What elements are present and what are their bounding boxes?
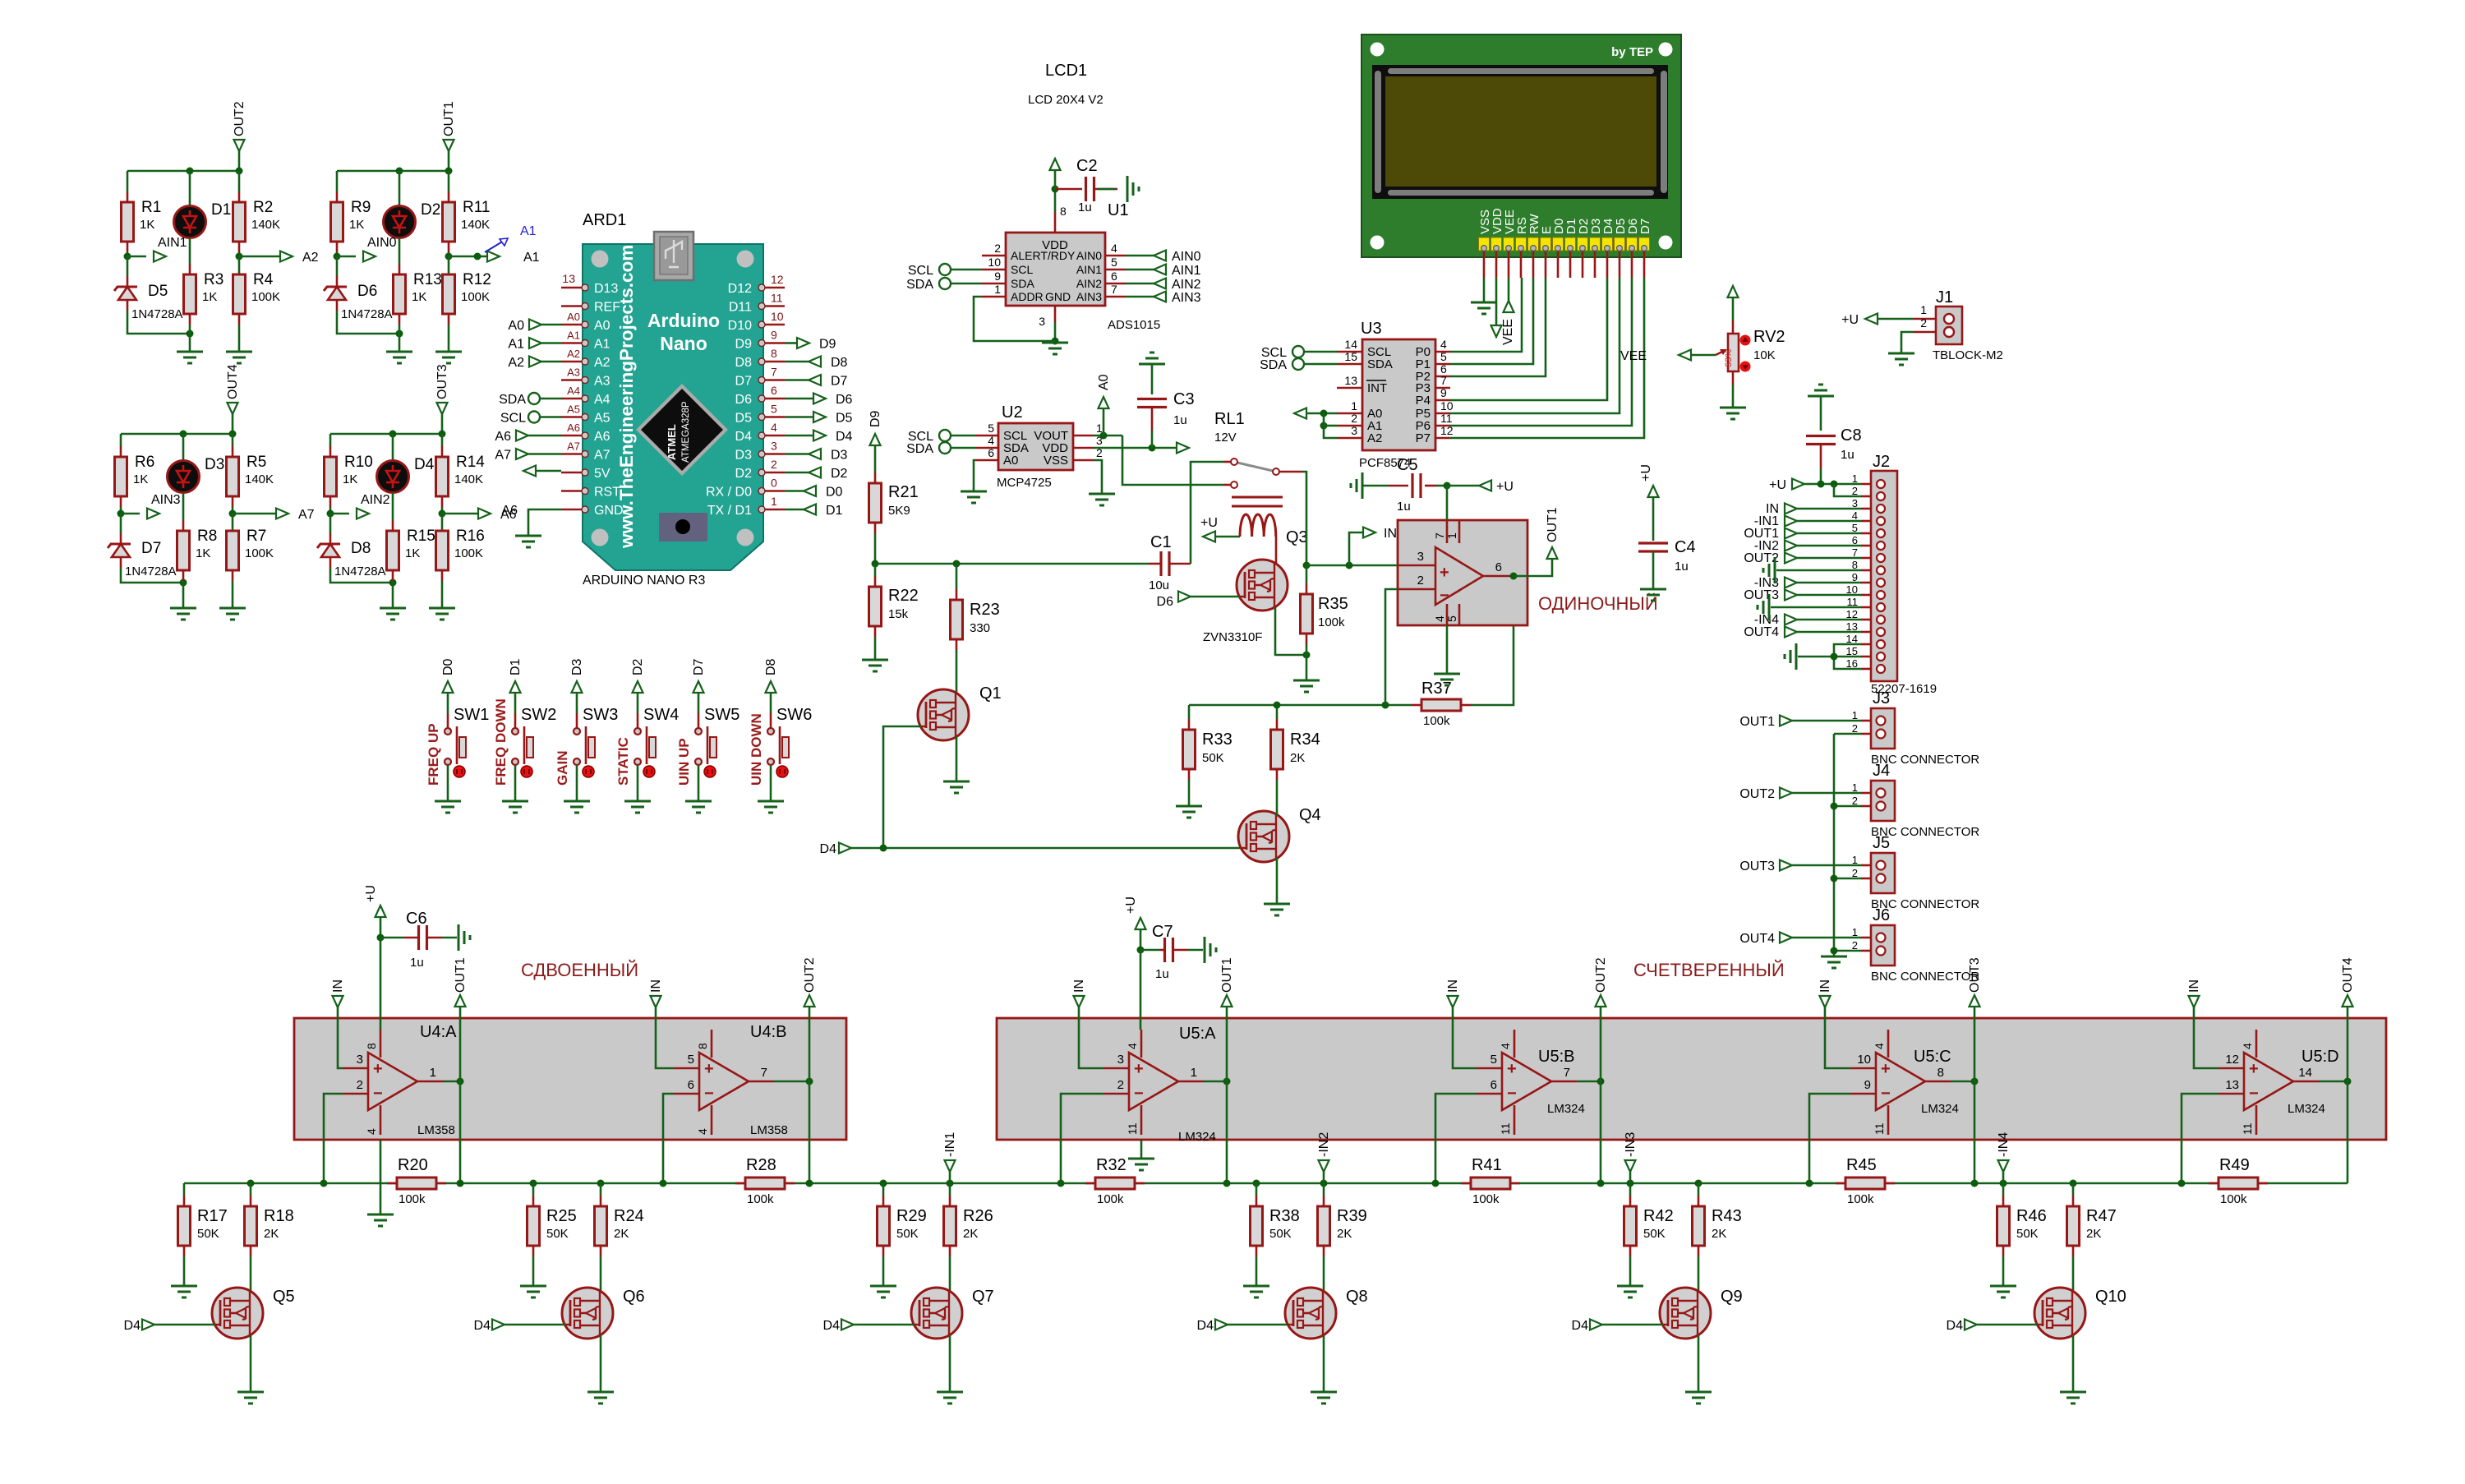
wire [1126, 255, 1154, 257]
lcd pad RW [1528, 237, 1539, 251]
resistor R22 body [869, 587, 882, 626]
svg-text:D0: D0 [441, 658, 455, 675]
arduino right pin D8 [763, 361, 785, 363]
ground (U2 VSS) [1089, 494, 1115, 505]
svg-text:OUT4: OUT4 [1744, 625, 1779, 639]
switch SW1 red button [454, 766, 465, 777]
svg-text:D13: D13 [594, 282, 618, 296]
svg-text:MCP4725: MCP4725 [997, 476, 1052, 490]
svg-text:FREQ DOWN: FREQ DOWN [493, 698, 509, 786]
J2 pin 2 [1861, 495, 1871, 498]
atmega328p chip [636, 384, 728, 476]
svg-text:C2: C2 [1076, 157, 1098, 175]
wire [809, 1081, 811, 1183]
wire [448, 171, 450, 191]
lcd pad VSS [1479, 237, 1490, 251]
resistor R23 body [951, 600, 963, 639]
svg-text:J1: J1 [1936, 288, 1953, 306]
junction J6 shield [1831, 947, 1838, 955]
U5:C pin 4 (top) [1887, 1030, 1890, 1058]
svg-text:R45: R45 [1846, 1156, 1877, 1174]
U1 pin 6 AIN2 [1105, 283, 1126, 285]
svg-text:A5: A5 [567, 403, 580, 416]
wire [1820, 468, 1822, 484]
svg-text:D5: D5 [148, 283, 168, 300]
node A7 [229, 510, 237, 518]
wire R23 to Q1 [956, 650, 958, 694]
resistor R13 [394, 274, 406, 314]
wire [1514, 559, 1552, 576]
svg-text:7: 7 [761, 1066, 767, 1080]
svg-text:D4: D4 [1197, 1319, 1214, 1333]
terminal AIN2 [1154, 279, 1166, 289]
J2 pin 10 [1861, 594, 1871, 597]
svg-text:2K: 2K [1290, 751, 1305, 765]
wire [250, 1335, 252, 1392]
svg-text:A4: A4 [567, 385, 580, 397]
svg-text:D1: D1 [826, 504, 843, 518]
junction pin2 [1831, 481, 1838, 488]
svg-text:14: 14 [1344, 338, 1357, 351]
wire GND [528, 509, 561, 536]
svg-text:+: + [1134, 1060, 1144, 1078]
ground [515, 536, 541, 547]
wire [1189, 704, 1412, 707]
svg-text:ОДИНОЧНЫЙ: ОДИНОЧНЫЙ [1538, 593, 1658, 614]
wire [770, 765, 772, 801]
svg-text:AIN3: AIN3 [1076, 290, 1102, 303]
wire [540, 416, 561, 418]
resistor R45 [1836, 1182, 1845, 1185]
wire VOUT [1093, 435, 1122, 437]
svg-text:140K: 140K [461, 218, 490, 232]
wire [1652, 551, 1655, 589]
wire [785, 398, 813, 400]
arduino left pin A2 [561, 361, 583, 363]
junction output U5:A [1223, 1078, 1231, 1085]
ground [170, 608, 196, 620]
svg-text:D4: D4 [820, 842, 837, 856]
lcd pad D2 [1578, 237, 1588, 251]
wire [1629, 1172, 1632, 1183]
J2 pin 6 [1861, 545, 1871, 547]
mosfet Q6 [562, 1288, 613, 1339]
svg-text:3: 3 [1351, 424, 1357, 437]
svg-text:100k: 100k [1318, 615, 1345, 629]
wire [785, 435, 813, 437]
wire [1054, 322, 1057, 341]
svg-text:15k: 15k [888, 607, 909, 621]
ground (C6) [458, 924, 470, 951]
svg-text:5: 5 [1445, 615, 1458, 622]
svg-text:OUT2: OUT2 [1594, 957, 1608, 993]
resistor R25 body [528, 1206, 540, 1246]
wire [514, 693, 517, 713]
svg-text:D8: D8 [351, 540, 371, 557]
wire [1306, 565, 1398, 567]
svg-text:140K: 140K [245, 472, 274, 486]
wire [576, 693, 578, 713]
wire [1483, 278, 1486, 302]
wire bottom [330, 568, 393, 583]
svg-text:AIN2: AIN2 [361, 493, 390, 507]
svg-text:D4: D4 [735, 430, 753, 444]
resistor R6 [115, 457, 127, 496]
svg-text:4: 4 [365, 1128, 378, 1135]
U3 pin 12 P7 [1435, 437, 1450, 440]
resistor R1 [122, 202, 134, 242]
ground (U1) [1042, 343, 1068, 354]
svg-text:8: 8 [696, 1043, 709, 1049]
mosfet Q9 [1660, 1288, 1711, 1339]
resistor R32 [1085, 1182, 1095, 1185]
junction [1695, 1180, 1702, 1187]
svg-text:GND: GND [1045, 290, 1071, 303]
svg-text:D6: D6 [735, 393, 753, 407]
svg-text:−: − [704, 1085, 714, 1103]
wire [2319, 1081, 2348, 1083]
wire OUT2 to bus [238, 151, 241, 171]
wire [949, 1172, 951, 1183]
wire [1304, 363, 1337, 366]
junction A0 [1320, 410, 1328, 417]
wire [1691, 354, 1716, 357]
svg-text:R12: R12 [463, 271, 491, 288]
svg-text:100k: 100k [747, 1192, 774, 1206]
svg-text:R33: R33 [1202, 730, 1232, 749]
wire [874, 637, 877, 660]
ground (C2) [1127, 176, 1139, 202]
wire [2182, 1094, 2218, 1183]
ground (op-amp pin4) [1434, 674, 1460, 685]
svg-text:2: 2 [1117, 1078, 1124, 1092]
svg-text:U5:D: U5:D [2301, 1048, 2339, 1066]
terminal VEE (down) [1491, 325, 1502, 337]
arduino right pin D4 [763, 435, 785, 437]
capacitor C8 plates [1806, 436, 1836, 445]
capacitor C1 [1149, 563, 1161, 565]
junction -input [1806, 1180, 1813, 1187]
wire [1054, 189, 1057, 212]
wire VSS [1093, 460, 1102, 493]
svg-text:10: 10 [988, 256, 1001, 269]
svg-text:D6: D6 [836, 393, 853, 407]
junction node bus [1223, 1180, 1231, 1187]
terminal SCL (U2) [939, 430, 951, 441]
U5:C pin 8 (out) [1925, 1081, 1951, 1083]
junction R23 [953, 560, 961, 568]
U4:A pin 3 (+) [343, 1067, 368, 1070]
svg-text:2K: 2K [963, 1227, 978, 1241]
wire [1226, 1081, 1228, 1183]
svg-text:A0: A0 [567, 311, 580, 323]
svg-text:AIN1: AIN1 [1172, 264, 1201, 278]
wire [956, 736, 958, 781]
svg-text:ALERT/RDY: ALERT/RDY [1011, 249, 1076, 262]
svg-text:R4: R4 [253, 271, 274, 288]
svg-text:SW5: SW5 [704, 706, 739, 724]
U4:B pin 4 (bottom) [711, 1105, 713, 1135]
svg-text:13: 13 [562, 272, 575, 285]
wire [1362, 485, 1389, 487]
svg-text:OUT4: OUT4 [2341, 957, 2355, 993]
arduino left pin GND [561, 509, 583, 511]
wire [443, 1081, 460, 1083]
svg-text:R18: R18 [264, 1207, 294, 1225]
resistor R37 body [1421, 699, 1461, 711]
mosfet Q5 [212, 1288, 263, 1339]
arduino right pin D7 [763, 379, 785, 381]
svg-text:D6: D6 [1157, 595, 1174, 609]
wire to Q8 [1323, 1256, 1325, 1293]
wire to AIN0 [337, 256, 356, 258]
svg-text:D9: D9 [735, 338, 753, 352]
svg-text:RST: RST [594, 486, 620, 500]
U1 pin 5 AIN1 [1105, 269, 1126, 271]
svg-text:D1: D1 [509, 658, 523, 675]
wire [1188, 949, 1203, 952]
svg-text:A3: A3 [567, 366, 580, 379]
svg-text:OUT4: OUT4 [1739, 932, 1775, 946]
svg-text:−: − [1507, 1085, 1517, 1103]
op-amp pin 5 [1458, 604, 1461, 625]
svg-text:A6: A6 [594, 430, 610, 444]
resistor R16 [436, 531, 449, 570]
resistor R29 body [878, 1206, 890, 1246]
svg-text:OUT1: OUT1 [1739, 715, 1775, 729]
ground (C7) [1205, 937, 1216, 963]
svg-text:-IN2: -IN2 [1317, 1132, 1331, 1157]
svg-text:AIN0: AIN0 [1172, 250, 1201, 264]
power (LCD VEE) [1504, 301, 1514, 312]
svg-text:-IN3: -IN3 [1624, 1132, 1638, 1157]
wire [1103, 408, 1105, 436]
svg-text:D4: D4 [836, 430, 853, 444]
svg-text:AIN1: AIN1 [158, 236, 187, 250]
photodiode D2 [384, 206, 416, 238]
svg-text:D11: D11 [729, 301, 752, 315]
op-amp U4:B [699, 1053, 749, 1110]
wire P0 to LCD [1450, 278, 1522, 352]
svg-text:8: 8 [1937, 1066, 1944, 1080]
junction node bus [1971, 1180, 1979, 1187]
U4:B pin 6 (-) [674, 1093, 699, 1095]
U5:B pin 11 (bottom) [1514, 1105, 1516, 1135]
svg-text:Q3: Q3 [1286, 528, 1308, 546]
svg-text:A6: A6 [501, 504, 518, 518]
svg-text:6: 6 [1495, 560, 1502, 574]
svg-text:ATMEL: ATMEL [666, 424, 678, 460]
wire IN to +input [1453, 1007, 1477, 1068]
svg-text:RX / D0: RX / D0 [706, 486, 752, 500]
junction A1 wire [474, 253, 481, 260]
wire [951, 435, 976, 437]
wire [1797, 532, 1861, 535]
junction J5 shield [1831, 875, 1838, 883]
lcd bezel bars [1388, 68, 1654, 74]
svg-text:9: 9 [771, 329, 777, 342]
ic U4 LM358 block [294, 1018, 846, 1140]
lcd pad D0 [1553, 237, 1564, 251]
svg-text:IN: IN [1384, 527, 1397, 541]
arduino left pin D13 [561, 287, 583, 289]
J1 pin 1 [1914, 318, 1936, 320]
svg-text:Q5: Q5 [273, 1288, 295, 1306]
svg-text:2K: 2K [1337, 1227, 1352, 1241]
terminal IN (single) [1363, 528, 1375, 538]
svg-text:R24: R24 [614, 1207, 644, 1225]
svg-text:7: 7 [1440, 374, 1447, 387]
svg-text:1u: 1u [1675, 560, 1689, 574]
wire [1214, 536, 1240, 538]
RV2 interactive buttons [1740, 335, 1751, 346]
junction R34 [1274, 702, 1281, 709]
ground (R17) [171, 1286, 197, 1297]
svg-text:8: 8 [771, 347, 777, 360]
junction -input [2178, 1180, 2186, 1187]
svg-text:FREQ UP: FREQ UP [426, 723, 441, 786]
ground [435, 352, 462, 363]
wire [1435, 1094, 1477, 1183]
wire [1385, 589, 1398, 705]
zener D8 [317, 544, 340, 557]
wire to A1 [449, 256, 486, 258]
resistor R42 body [1624, 1206, 1637, 1246]
wire [1126, 269, 1154, 271]
wire SDA [951, 283, 982, 285]
svg-text:R39: R39 [1337, 1207, 1367, 1225]
U5:D pin 4 (top) [2255, 1030, 2258, 1058]
wire [785, 342, 797, 344]
node AIN0 [334, 253, 341, 260]
wire D4 to gate [1977, 1324, 2038, 1326]
resistor R45 body [1845, 1178, 1885, 1189]
svg-text:+U: +U [1639, 464, 1653, 482]
wire [774, 1081, 809, 1083]
svg-text:1K: 1K [140, 218, 154, 232]
svg-text:R14: R14 [456, 454, 485, 471]
wire [1323, 1183, 1325, 1196]
junction op-amp pin2 [1382, 702, 1389, 709]
arduino right pin D12 [763, 287, 785, 289]
svg-text:4: 4 [1433, 615, 1446, 622]
junction J4 shield [1831, 803, 1838, 810]
svg-text:LM324: LM324 [1921, 1102, 1959, 1116]
U2 pin 6 A0 [976, 459, 998, 462]
wire [441, 434, 444, 446]
svg-text:-IN1: -IN1 [943, 1132, 957, 1157]
op-amp pin 3 [1398, 565, 1435, 567]
wire [447, 693, 449, 713]
svg-text:R34: R34 [1290, 730, 1320, 749]
terminal SDA (U3) [1292, 358, 1304, 370]
svg-text:−: − [1881, 1085, 1891, 1103]
lcd LCD1 board [1362, 35, 1681, 257]
mosfet Q3 [1237, 560, 1288, 611]
junction output U4:A [457, 1078, 464, 1085]
J2 pin 11 [1861, 606, 1871, 609]
wire +U to U4 pin8 [380, 938, 382, 1030]
wire [1061, 1094, 1103, 1183]
ground (R46) [1990, 1286, 2016, 1297]
ground (R29) [870, 1286, 896, 1297]
wire [1188, 780, 1191, 806]
svg-text:SW6: SW6 [776, 706, 812, 724]
wire [1306, 565, 1308, 583]
svg-text:7: 7 [1564, 1066, 1570, 1080]
svg-text:R41: R41 [1472, 1156, 1502, 1174]
svg-text:1: 1 [1191, 1066, 1197, 1080]
wire [1122, 436, 1223, 485]
wire [1974, 1007, 1976, 1081]
wire D4 to gate [1228, 1324, 1288, 1326]
wire [238, 256, 241, 276]
wire top bus [121, 433, 233, 436]
arduino left pin REF [561, 305, 583, 307]
svg-text:4: 4 [988, 434, 994, 447]
op-amp pin 1 [1458, 520, 1461, 543]
switch SW4 red button [643, 766, 655, 777]
svg-text:IN: IN [1072, 979, 1086, 993]
svg-text:C1: C1 [1150, 533, 1172, 551]
wire [1792, 864, 1861, 867]
svg-text:R22: R22 [888, 587, 919, 605]
wire [380, 937, 404, 939]
U5:D pin 11 (bottom) [2255, 1105, 2258, 1135]
op-amp U5:B [1502, 1053, 1551, 1110]
svg-text:5: 5 [688, 1053, 694, 1067]
photodiode D3 [168, 461, 200, 493]
ground (R38) [1243, 1286, 1269, 1297]
junction [880, 1180, 887, 1187]
wire [698, 693, 700, 713]
svg-text:D7: D7 [692, 658, 706, 675]
wire [336, 252, 339, 256]
wire ADDR to gnd [974, 297, 1055, 341]
wire [874, 564, 877, 576]
wire [1797, 631, 1861, 634]
wire [127, 256, 129, 276]
resistor R47 body [2067, 1206, 2080, 1246]
svg-text:AIN0: AIN0 [367, 236, 397, 250]
svg-text:A7: A7 [567, 440, 580, 453]
junction output U5:C [1971, 1078, 1979, 1085]
wire [1834, 878, 1861, 880]
svg-text:R26: R26 [963, 1207, 993, 1225]
switch SW6 red button [776, 766, 788, 777]
wire [528, 453, 561, 455]
wire [1204, 1081, 1227, 1083]
svg-text:100k: 100k [399, 1192, 426, 1206]
terminal A2 (arduino) [529, 357, 541, 367]
svg-text:5: 5 [1440, 350, 1447, 363]
ground (Q10) [2060, 1392, 2086, 1403]
arduino left pin A0 [561, 324, 583, 326]
wire [1797, 520, 1861, 523]
power +U (C4) [1648, 486, 1659, 497]
wire [576, 765, 578, 801]
resistor R12 [443, 274, 455, 314]
op-amp U4:A [368, 1053, 417, 1110]
svg-text:1K: 1K [412, 290, 426, 304]
wire [532, 1183, 535, 1196]
wire SCL [951, 269, 982, 271]
svg-text:OUT4: OUT4 [226, 364, 240, 399]
ground (R42) [1617, 1286, 1643, 1297]
power +U (C5) [1479, 481, 1491, 491]
wire IN to +input [1825, 1007, 1850, 1068]
wire [1436, 485, 1447, 487]
